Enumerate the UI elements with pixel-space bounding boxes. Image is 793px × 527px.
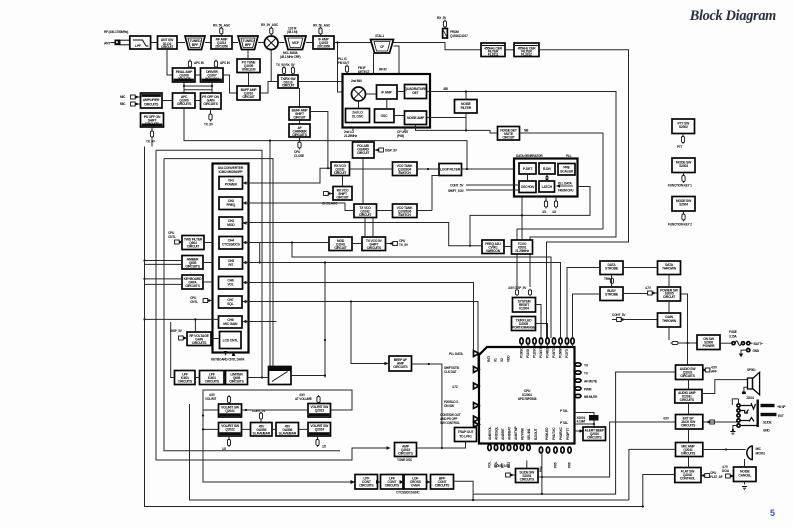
wire — [258, 42, 265, 44]
svg-text:TONE OSC: TONE OSC — [397, 458, 413, 462]
final amplifier Q3 — [173, 68, 196, 82]
svg-text:CONT_5V: CONT_5V — [450, 184, 464, 188]
wire long run right then down (riser x630.5) — [539, 50, 629, 338]
wire IF amp to ceramic filters — [334, 43, 481, 93]
svg-text:(P45): (P45) — [397, 134, 404, 138]
microphone amplifier — [141, 93, 163, 108]
2nd LO block — [346, 109, 370, 123]
wire — [195, 100, 201, 102]
svg-text:VOL: VOL — [488, 462, 492, 468]
wire — [300, 112, 332, 169]
right column box 2 — [645, 286, 681, 301]
svg-text:P12/SCK: P12/SCK — [533, 345, 537, 358]
svg-text:THROWN: THROWN — [662, 267, 677, 271]
svg-text:NB MUTE: NB MUTE — [584, 395, 597, 399]
svg-text:DATA GENERATOR: DATA GENERATOR — [516, 154, 543, 158]
svg-text:P11/SI: P11/SI — [526, 349, 530, 358]
trap out box — [455, 428, 477, 442]
svg-text:XTAL1: XTAL1 — [375, 34, 384, 38]
svg-text:BATT+: BATT+ — [754, 342, 763, 346]
svg-text:UPD78F0538: UPD78F0538 — [518, 397, 537, 401]
svg-text:CIRCUITS: CIRCUITS — [367, 246, 382, 250]
CPU bottom pins — [488, 445, 571, 454]
IF amplifier Q2 — [313, 36, 334, 49]
svg-text:CIRCUITS: CIRCUITS — [229, 380, 244, 384]
svg-text:VOL: VOL — [227, 283, 233, 287]
svg-text:CIRCUIT: CIRCUIT — [336, 196, 349, 200]
wire — [162, 100, 173, 102]
alert beep box — [583, 427, 606, 441]
wire APC down and right (x270 riser) — [184, 108, 467, 367]
svg-text:CIRCUITS: CIRCUITS — [393, 365, 408, 369]
RF amplifier Q1 — [211, 36, 232, 49]
osc divider — [519, 181, 536, 193]
svg-text:OSC+DIV: OSC+DIV — [521, 185, 536, 189]
pin RX AGC above RF amp — [213, 24, 231, 37]
vol/rit switch A2 — [219, 423, 242, 437]
DAC ch5 — [219, 257, 243, 269]
svg-text:P17/TI: P17/TI — [565, 349, 569, 358]
svg-text:DISP_5V: DISP_5V — [385, 149, 398, 153]
svg-text:Q1016,D1017: Q1016,D1017 — [450, 34, 468, 38]
svg-text:CNTL: CNTL — [168, 235, 176, 239]
CPU bottom pin labels (vertical inside) — [488, 426, 570, 440]
svg-text:X1: X1 — [494, 358, 498, 362]
DAC ch7 — [219, 296, 243, 308]
svg-text:AFF: AFF — [711, 370, 717, 374]
node RF input label — [104, 30, 128, 34]
svg-text:SQL: SQL — [227, 302, 233, 306]
quadrature det output long wire (riser x616) — [427, 92, 617, 288]
mixer MIX1 — [264, 36, 278, 50]
low pass filter FL1 — [130, 36, 151, 49]
wire frame x144.5 outer loop — [145, 147, 643, 507]
svg-text:AN3/BAT: AN3/BAT — [508, 426, 512, 440]
bandpass filter trapezoid FL2 — [185, 36, 205, 50]
wire BPF2 to PO tune — [247, 50, 249, 60]
svg-text:CLK DAT: CLK DAT — [444, 370, 457, 374]
vol/rit switch A1 — [219, 404, 242, 417]
svg-text:DC/A: DC/A — [722, 469, 730, 473]
noise filter — [455, 100, 478, 114]
DAC ch3 — [219, 217, 243, 229]
mod circuit — [329, 237, 352, 251]
pin 45V on ext jack wire — [663, 417, 714, 425]
wire PLL latch to riser x625 — [470, 187, 590, 246]
svg-text:ANT: ANT — [104, 42, 110, 46]
PTT switch box — [672, 119, 695, 149]
svg-text:VDD: VDD — [507, 355, 511, 362]
svg-text:CIRCUIT: CIRCUIT — [357, 151, 370, 155]
svg-text:CIRCUITS: CIRCUITS — [145, 122, 160, 126]
slide switch box — [494, 464, 538, 483]
noise detector — [498, 127, 520, 141]
battery labels — [753, 342, 763, 353]
svg-text:AN4/TMP: AN4/TMP — [514, 426, 518, 440]
wire branches into A1/A2 — [203, 410, 219, 429]
svg-text:1/2: 1/2 — [222, 447, 226, 451]
svg-text:MIC: MIC — [120, 95, 126, 99]
svg-text:21.25MHz: 21.25MHz — [515, 249, 529, 253]
wire DAC ch4 to MOD — [243, 243, 552, 339]
fuse symbol F1 — [720, 330, 745, 345]
svg-text:GND: GND — [763, 429, 770, 433]
wire TX/RX sw to TX unit — [298, 81, 343, 83]
AF oscillator — [289, 124, 310, 137]
svg-text:J2001: J2001 — [746, 396, 754, 400]
CPU below-bottom pin labels (vertical) — [488, 461, 572, 472]
svg-text:AT VOLUME: AT VOLUME — [295, 397, 312, 401]
svg-text:PLL: PLL — [566, 154, 572, 158]
svg-text:IC602 M62364FP: IC602 M62364FP — [219, 170, 244, 174]
IF amp inside unit — [377, 85, 398, 99]
svg-text:LCD CNTL: LCD CNTL — [223, 339, 238, 343]
wire driver to buffer — [223, 75, 237, 93]
connector left of TWD — [168, 231, 213, 244]
TX/RX LED box — [512, 317, 536, 331]
speaker SP1 — [702, 368, 760, 395]
wires VOL cluster row2 chain — [242, 428, 309, 430]
crystal filter trapezoid FL4 — [285, 36, 307, 50]
amber box — [182, 256, 203, 270]
svg-text:CIRCUITS: CIRCUITS — [178, 380, 193, 384]
wire slide sw top to CPU pin — [526, 461, 528, 469]
svg-text:(45.1 MHz CRF): (45.1 MHz CRF) — [280, 55, 301, 59]
svg-text:2nd MIX: 2nd MIX — [351, 79, 363, 83]
svg-text:CIRCUITS: CIRCUITS — [203, 102, 218, 106]
bandpass filter trapezoid FL3 — [238, 36, 258, 50]
wire polarity guard down to TX VCO — [362, 158, 364, 204]
svg-text:CIRCUITS: CIRCUITS — [205, 380, 220, 384]
RX VCO shift — [322, 187, 352, 206]
arrows below tall box — [211, 351, 245, 362]
osc block — [375, 109, 395, 123]
svg-text:P10/SO: P10/SO — [520, 347, 524, 358]
mixer MIX2 (2nd) — [351, 79, 366, 101]
PS off/on circuit — [201, 93, 222, 109]
ceramic filter CF1 — [481, 43, 505, 57]
wires VCO chain — [350, 168, 515, 170]
svg-text:CIRCUIT: CIRCUIT — [359, 213, 372, 217]
svg-text:CIRCUIT: CIRCUIT — [334, 171, 347, 175]
svg-text:CIRCUIT: CIRCUIT — [282, 84, 295, 88]
wire into beep amp — [351, 302, 386, 364]
svg-text:RX_5V_AGC: RX_5V_AGC — [313, 24, 331, 28]
LPF cnt1 — [355, 475, 378, 490]
wires VOL cluster row1 — [242, 409, 309, 411]
svg-text:SWITCH: SWITCH — [398, 171, 411, 175]
crystal X2001 cpu resonator — [575, 413, 599, 428]
DAC ch1 — [219, 177, 243, 190]
svg-text:IC2004: IC2004 — [519, 307, 529, 311]
wires inside IF unit — [359, 92, 405, 116]
svg-text:SW CONTROL: SW CONTROL — [440, 421, 460, 425]
noise det output long wire (riser x602) — [517, 133, 603, 287]
wires from CPU top to columns — [567, 268, 600, 339]
vol/rit switch C2 — [308, 423, 331, 437]
PLL left labels — [448, 184, 519, 194]
svg-text:Q2023: Q2023 — [315, 409, 324, 413]
svg-text:CIRCUITS: CIRCUITS — [680, 374, 695, 378]
svg-text:S2002: S2002 — [679, 125, 688, 129]
svg-text:TRAP OUT: TRAP OUT — [458, 430, 475, 434]
power switch contacts S1 — [739, 342, 753, 358]
svg-text:2SC3356: 2SC3356 — [317, 45, 330, 49]
wire row output to riser x602 — [454, 481, 474, 493]
driver amplifier Q4 — [201, 68, 224, 82]
right column box 3 — [612, 313, 681, 327]
wires TX VCO row — [377, 176, 440, 211]
svg-text:TX_5V: TX_5V — [399, 243, 409, 247]
pin APC above final — [188, 60, 204, 69]
wires inside PLL — [528, 174, 548, 181]
svg-text:MIC: MIC — [756, 447, 762, 451]
quadrature detector — [405, 85, 428, 99]
svg-text:ON SW: ON SW — [444, 404, 454, 408]
svg-text:Q2024: Q2024 — [315, 428, 324, 432]
45V amp B1 — [251, 409, 273, 436]
wire compander to x325 — [291, 375, 325, 377]
wire — [278, 42, 285, 44]
svg-text:P65: P65 — [554, 462, 558, 468]
svg-text:+B SP: +B SP — [777, 405, 786, 409]
svg-text:TX_5V: TX_5V — [204, 123, 214, 127]
label FM IF labels above unit — [338, 57, 387, 74]
connector left of display — [170, 329, 220, 340]
wire — [232, 42, 238, 44]
svg-text:455: 455 — [443, 87, 448, 91]
pin below A2 — [222, 436, 231, 451]
tone box left column — [600, 261, 623, 275]
svg-text:CIRCUIT: CIRCUIT — [242, 95, 255, 99]
wire buffer to TX/RX sw — [260, 82, 278, 94]
svg-text:FUNCTION KEY 2: FUNCTION KEY 2 — [668, 223, 692, 227]
svg-text:5: 5 — [770, 508, 775, 518]
TX/RX switch — [278, 75, 298, 88]
svg-text:Q2022: Q2022 — [225, 428, 234, 432]
svg-text:CONT_3.5V: CONT_3.5V — [494, 464, 511, 468]
wire mic amp to flat sw — [688, 457, 690, 468]
CPU top pin labels (vertical) — [487, 345, 569, 362]
svg-text:PTT: PTT — [677, 145, 683, 149]
svg-text:CIRCUIT: CIRCUIT — [502, 136, 515, 140]
svg-text:SP001: SP001 — [747, 368, 756, 372]
svg-text:MCF: MCF — [292, 41, 299, 45]
svg-text:FLAT_AF: FLAT_AF — [710, 475, 723, 479]
wire DAC ch1 to RX VCO input — [243, 168, 343, 186]
svg-text:LOOP FILTER: LOOP FILTER — [440, 168, 461, 172]
mode switch 2 — [668, 197, 695, 227]
svg-text:R-DIV: R-DIV — [543, 167, 552, 171]
wire audio sw to audio amp — [688, 380, 690, 390]
svg-text:2SK3475: 2SK3475 — [178, 77, 191, 81]
svg-text:FREQ: FREQ — [226, 203, 235, 207]
crystal filter trapezoid above IF unit — [371, 34, 394, 53]
controller IC frame U4 — [213, 164, 249, 353]
regulator box — [722, 465, 756, 490]
IF unit frame U3 — [343, 74, 431, 128]
svg-text:1/2: 1/2 — [322, 445, 326, 449]
wires right columns vertical — [612, 268, 670, 341]
svg-text:SLAVE/BAR: SLAVE/BAR — [253, 432, 271, 436]
pin CW key below — [294, 137, 304, 158]
wire noise filter right to noise det — [416, 113, 498, 133]
labels right of CPU bottom — [560, 409, 568, 425]
svg-text:(45.1 M): (45.1 M) — [287, 30, 297, 34]
svg-text:RF (430-1750MHz): RF (430-1750MHz) — [104, 30, 128, 34]
CPU frame U5 — [479, 347, 575, 444]
svg-text:THROWN: THROWN — [662, 319, 677, 323]
svg-text:MOD: MOD — [227, 223, 235, 227]
svg-text:4.19M: 4.19M — [577, 420, 586, 424]
wire cpu to alert beep — [575, 430, 584, 432]
label 45V AT right cluster — [295, 393, 320, 404]
antenna connector J1 — [104, 40, 130, 46]
svg-text:RF IN: RF IN — [379, 68, 387, 72]
PO tune block — [237, 59, 260, 73]
pin below PS shift — [146, 127, 156, 144]
microphone input node — [120, 95, 141, 106]
wire amber — [145, 261, 213, 265]
svg-text:P62/RXC: P62/RXC — [559, 427, 563, 440]
wire reg top to jack — [744, 459, 746, 467]
svg-text:STROBE: STROBE — [605, 293, 619, 297]
svg-text:21.25MHz: 21.25MHz — [344, 134, 358, 138]
mic amp 2 box — [676, 443, 703, 457]
svg-text:PORT/ORANGE: PORT/ORANGE — [512, 326, 536, 330]
PLL data from CPU arrows — [556, 182, 574, 193]
CPU top pins — [520, 338, 574, 347]
pin below C2 — [316, 436, 326, 449]
audio amp box — [675, 390, 702, 404]
svg-text:SLIDE: SLIDE — [763, 421, 771, 425]
wire frame x156 — [156, 150, 387, 460]
wire — [505, 49, 514, 51]
pin above driver — [214, 60, 230, 69]
svg-text:P60/LED: P60/LED — [545, 427, 549, 440]
buffer amp shift — [237, 86, 260, 100]
svg-text:P15/TO: P15/TO — [552, 347, 556, 358]
svg-text:CIRCUITS: CIRCUITS — [680, 398, 695, 402]
wire audio amp to ext sp jack sw — [688, 403, 690, 415]
wire DAC ch7 long to CPU — [243, 302, 480, 370]
wire audio sw input riser — [473, 372, 675, 500]
svg-text:IF AMP: IF AMP — [381, 91, 392, 95]
svg-text:CIRCUIT: CIRCUIT — [663, 295, 676, 299]
wire keyboard — [145, 279, 213, 285]
svg-text:3.15A: 3.15A — [729, 335, 737, 339]
svg-text:TRH: TRH — [604, 277, 611, 281]
buffer amp shift 2 — [289, 107, 310, 120]
keyboard data box — [182, 275, 203, 289]
phase detector — [519, 163, 536, 174]
svg-text:P-DET: P-DET — [523, 167, 533, 171]
labels below IF unit — [344, 128, 408, 139]
TCXO — [512, 240, 533, 254]
wire beep amp down to tone amp — [412, 364, 442, 448]
CPU cntl pin — [190, 296, 213, 304]
BPF end — [431, 475, 454, 490]
svg-text:PLL DATA: PLL DATA — [449, 352, 464, 356]
compander block with diagonal — [269, 367, 292, 385]
pin below PS off/on — [204, 109, 214, 127]
svg-text:BPF: BPF — [245, 43, 251, 47]
svg-text:CTCSS/DCS: CTCSS/DCS — [222, 243, 241, 247]
pins below PLL — [542, 197, 558, 215]
wire right C1 to y390 run — [203, 390, 355, 482]
svg-text:APC IN: APC IN — [194, 61, 205, 65]
svg-text:FILTER: FILTER — [461, 106, 472, 110]
wires row — [195, 377, 269, 379]
svg-text:KEY/IN0: KEY/IN0 — [521, 428, 525, 440]
wire ext sp jack sw to mic amp — [688, 429, 690, 443]
svg-text:RX_5V: RX_5V — [437, 16, 447, 20]
CPU right pins — [575, 363, 598, 399]
svg-text:FUNCTION KEY 1: FUNCTION KEY 1 — [668, 184, 692, 188]
node MCF label below — [280, 51, 301, 59]
wire slide sw to riser x618 — [538, 422, 677, 477]
wire final/driver APC feedback — [184, 82, 212, 93]
wire frame x164 — [164, 159, 340, 451]
svg-text:UN9111M: UN9111M — [242, 68, 256, 72]
busy box left column 2 — [600, 287, 623, 301]
svg-text:TO LPF1: TO LPF1 — [459, 435, 472, 439]
wire — [177, 42, 185, 44]
svg-text:CIRCUITS: CIRCUITS — [681, 452, 696, 456]
wire DAC ch8 stub — [243, 321, 277, 323]
svg-text:SCALER: SCALER — [560, 170, 573, 174]
svg-text:CIRCUIT: CIRCUIT — [187, 245, 200, 249]
svg-text:AN0/VOL: AN0/VOL — [488, 427, 492, 440]
svg-text:MIC: MIC — [120, 102, 126, 106]
wires freq adj/tcxo — [504, 197, 522, 247]
wire DAC ch5 to x325 vertical — [243, 263, 561, 378]
svg-text:P16/INT: P16/INT — [559, 346, 563, 358]
ceramic filter CF2 — [514, 43, 539, 57]
svg-text:TX_5V: TX_5V — [146, 140, 156, 144]
svg-text:4.5: 4.5 — [552, 210, 556, 214]
wires reset/led to CPU top — [536, 305, 548, 338]
LCD controller — [220, 332, 242, 349]
svg-text:NOISE AMP: NOISE AMP — [407, 116, 425, 120]
wires row chain — [378, 481, 431, 483]
svg-text:CIRCUITS: CIRCUITS — [435, 484, 450, 488]
wire xtal to IF unit — [374, 46, 400, 74]
CPU left arrows — [440, 351, 479, 428]
45V amp B2 — [276, 423, 299, 437]
wire TX/RX sw bottom to buff amp 2 — [299, 88, 301, 107]
svg-text:CLOSE: CLOSE — [294, 154, 304, 158]
svg-text:CTCSS/DCS ENC: CTCSS/DCS ENC — [396, 491, 420, 495]
wire — [151, 42, 158, 44]
resistor R1 feed — [437, 16, 468, 38]
TWD filter box — [182, 236, 204, 250]
svg-text:CIRCUITS: CIRCUITS — [681, 424, 696, 428]
VCO tank RX — [393, 162, 418, 176]
svg-text:CIRCUITS: CIRCUITS — [185, 284, 200, 288]
loop filter — [439, 164, 462, 176]
wire PO tune down to buff amp — [248, 73, 250, 87]
svg-text:SLAVE/BAR: SLAVE/BAR — [279, 432, 297, 436]
svg-text:CIRCUITS: CIRCUITS — [359, 484, 374, 488]
svg-text:P TAL: P TAL — [560, 421, 568, 425]
svg-text:CF: CF — [380, 45, 384, 49]
svg-text:AN2/RIT: AN2/RIT — [501, 427, 505, 440]
svg-text:CIRCUITS: CIRCUITS — [292, 133, 307, 137]
wire y500 riser x625 — [190, 404, 675, 500]
reference divider — [539, 163, 555, 174]
system reset box — [508, 286, 536, 312]
